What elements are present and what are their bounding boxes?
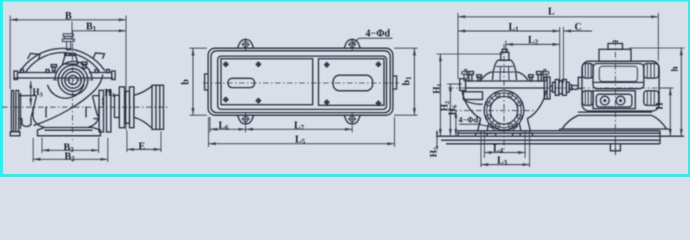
- flange spokes: [490, 96, 518, 124]
- suction flange outer circle: [484, 91, 524, 131]
- motor centerline: [614, 40, 616, 150]
- casing flare left: [31, 96, 37, 117]
- vent stack on top: [62, 34, 74, 50]
- bearing bracket box: [593, 91, 635, 109]
- right mounting panel: [319, 59, 385, 106]
- split flange bar: [460, 77, 550, 99]
- pump vertical centerline: [503, 44, 505, 150]
- gland cap: [63, 56, 79, 65]
- flange bolt left: [467, 72, 473, 82]
- casing shoulder right: [517, 72, 529, 80]
- suction pipe bottom line: [19, 118, 22, 120]
- dimension B1: [72, 22, 126, 34]
- cyan frame left: [0, 0, 3, 177]
- svg-text:E: E: [139, 142, 146, 153]
- dimension L6: [209, 117, 246, 147]
- baseplate bottom line: [446, 143, 660, 145]
- dimension B3: [42, 138, 99, 154]
- dimension E: [127, 131, 161, 153]
- housing side bolt left: [51, 65, 56, 71]
- bracket cap circle 1: [600, 96, 609, 105]
- volute spiral curve: [34, 75, 103, 126]
- motor corner fin block top-right: [644, 64, 659, 79]
- svg-text:B: B: [65, 11, 72, 22]
- flange stud right2: [529, 75, 534, 81]
- shaft circle r9: [62, 69, 85, 92]
- casing side right: [527, 91, 546, 119]
- left mounting panel: [221, 59, 313, 105]
- housing side bolt right: [82, 62, 87, 68]
- right panel bolt 2: [376, 62, 382, 68]
- coupling cone: [134, 86, 152, 128]
- baseplate top line: [458, 130, 660, 132]
- flange bolt holes: [486, 93, 522, 129]
- dimension b1: [394, 48, 418, 115]
- motor corner fin block bottom-right: [644, 91, 659, 106]
- motor inner panel: [593, 64, 644, 89]
- baseplate left edge: [457, 131, 459, 136]
- terminal box: [599, 49, 631, 61]
- pump top extension line: [437, 53, 504, 55]
- pump leg left: [478, 119, 489, 131]
- terminal box nub: [613, 41, 617, 44]
- svg-text:C: C: [575, 22, 582, 33]
- foot bracket right: [86, 107, 99, 128]
- bearing crosshair: [53, 79, 93, 81]
- bottom lug 2: [344, 112, 360, 125]
- cyan frame top: [0, 0, 690, 2]
- dimension C: [564, 22, 592, 33]
- small valve left: [462, 70, 470, 82]
- bearing housing arc: [55, 61, 92, 80]
- foot pad left: [476, 133, 496, 136]
- left tab: [205, 74, 209, 90]
- dimension L2: [506, 35, 560, 47]
- dimension H5: [429, 131, 441, 158]
- small valve right: [541, 70, 549, 82]
- bonnet bell: [493, 60, 517, 80]
- callout 4-Phi-d1: [459, 116, 495, 128]
- dimension b: [181, 48, 208, 115]
- dimension H6: [447, 104, 459, 136]
- volute inner arc: [48, 84, 85, 98]
- flange stud left2: [477, 75, 482, 81]
- motor top extension: [629, 47, 685, 49]
- gland bolts (dark heads): [64, 53, 67, 56]
- cyan frame right: [688, 0, 690, 177]
- left panel bolt 1: [223, 62, 229, 68]
- flange bolt right: [537, 72, 543, 82]
- left panel bolt 2: [256, 62, 262, 68]
- svg-text:H: H: [655, 102, 665, 109]
- coupling disc 1: [115, 95, 120, 117]
- extension coupling gap right: [562, 27, 564, 83]
- flange nub bolts: [21, 70, 110, 73]
- lifting lug right: [93, 53, 105, 59]
- dimension H: [655, 88, 671, 136]
- baseplate plate bottom: [436, 135, 684, 137]
- dimension H2: [439, 84, 451, 136]
- right panel bolt 1: [324, 62, 330, 68]
- plate centerline: [203, 82, 399, 84]
- suction flange left plates: [11, 91, 20, 132]
- shaft circle r6: [65, 72, 81, 88]
- right panel bolt 4: [376, 101, 382, 107]
- drain pocket: [22, 117, 31, 127]
- extension line left of B: [9, 16, 11, 90]
- bracket inner box: [596, 94, 632, 107]
- extension line right of B: [125, 16, 127, 131]
- left panel bolt 3: [223, 97, 229, 103]
- dimension H4: [102, 88, 116, 107]
- motor corner fin block top-left: [582, 64, 593, 79]
- coupling end flange: [152, 85, 164, 129]
- flange foot pad: [10, 132, 20, 136]
- baseplate inner plate: [218, 56, 387, 109]
- casing flare right: [93, 96, 99, 117]
- suction chamber box: [463, 92, 482, 104]
- suction flange centerline: [452, 110, 536, 112]
- foot pad right: [513, 133, 533, 136]
- dimension L7: [246, 120, 353, 132]
- right panel slot: [333, 75, 373, 91]
- svg-text:L: L: [548, 7, 555, 18]
- bonnet neck: [501, 52, 509, 60]
- svg-text:h: h: [670, 66, 680, 71]
- shaft circle r13: [58, 65, 88, 95]
- dimension h: [670, 48, 682, 136]
- cyan frame bottom: [0, 174, 690, 177]
- anchor tab centerline: [614, 139, 616, 155]
- pipe to discharge: [93, 95, 100, 97]
- dimension H1: [432, 54, 444, 136]
- right tab: [393, 76, 397, 89]
- shaft centerline: [448, 87, 672, 89]
- flange level extension: [447, 83, 462, 85]
- dimension H3: [31, 81, 44, 106]
- baseplate outer rect: [208, 48, 393, 115]
- shaft circle r3: [68, 75, 77, 84]
- casing shoulder left: [481, 72, 493, 80]
- extension right of L: [657, 13, 659, 61]
- leg gusset left: [490, 124, 498, 131]
- dimension B: [10, 11, 126, 22]
- leg gusset right: [511, 124, 519, 131]
- casing dome outer arc: [19, 48, 105, 73]
- baseplate frame line: [441, 139, 660, 141]
- suction flange inner circle: [490, 97, 518, 125]
- base pedestal: [38, 128, 101, 136]
- svg-text:b: b: [181, 79, 192, 85]
- dimension L5: [209, 117, 395, 147]
- extension L2 left: [505, 41, 507, 54]
- coupling discs: [550, 80, 578, 96]
- extension left of L: [457, 13, 459, 79]
- top lug 1: [238, 38, 254, 51]
- lifting lug left: [28, 54, 41, 60]
- left panel bolt 4: [256, 98, 262, 104]
- baseplate right edge: [659, 131, 661, 144]
- motor inner small frame: [599, 66, 637, 81]
- coupling disc 4: [130, 87, 134, 128]
- baseplate second rect: [211, 51, 390, 113]
- dimension L3: [481, 132, 530, 168]
- suction axis centerline: [2, 106, 170, 108]
- bottom lug 1: [238, 112, 254, 125]
- dimension L1: [458, 22, 560, 34]
- anchor tab: [610, 144, 620, 151]
- motor inner panel rib: [594, 81, 644, 83]
- coupling disc 2: [119, 87, 124, 128]
- motor pedestal: [560, 112, 670, 131]
- pump vertical centerline: [72, 31, 74, 140]
- left panel slot: [228, 78, 255, 87]
- dimension B2: [33, 138, 108, 163]
- shaft level extension right: [660, 87, 674, 89]
- dimension L4: [484, 132, 525, 159]
- bracket cap circle 2: [616, 96, 625, 105]
- suction pipe top line: [19, 95, 37, 97]
- discharge flange plates: [99, 90, 111, 132]
- shaft boss: [578, 77, 582, 88]
- callout 4-Phi-d: [353, 29, 393, 44]
- bonnet top cap: [502, 49, 507, 52]
- dimension L: [458, 7, 658, 18]
- split flange band: [14, 71, 115, 80]
- casing side left: [462, 91, 481, 119]
- foot bracket left: [33, 107, 46, 128]
- pump leg right: [519, 119, 530, 131]
- terminal box cap: [608, 44, 623, 50]
- extension coupling gap left: [559, 27, 561, 83]
- motor body: [582, 61, 659, 111]
- casing dome inner arc: [25, 52, 100, 73]
- motor corner fin block bottom-left: [582, 91, 593, 106]
- right panel bolt 3: [324, 100, 330, 106]
- top lug 2: [344, 38, 360, 51]
- coupling disc 3: [125, 91, 130, 123]
